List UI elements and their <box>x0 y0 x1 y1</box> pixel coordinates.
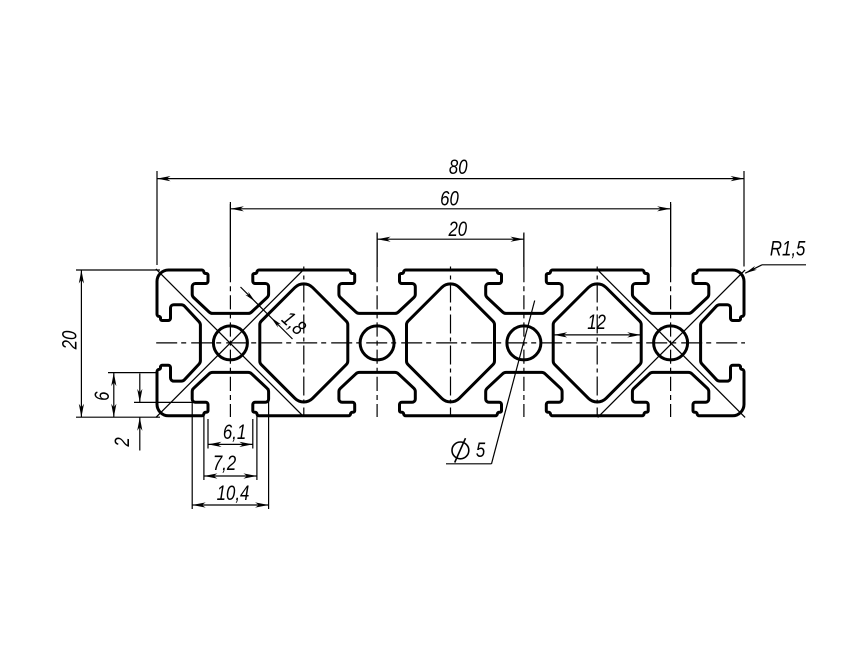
dim 20 top extension lines <box>376 233 378 268</box>
dim 6 <box>113 373 115 418</box>
centerline circle 1 <box>229 204 231 268</box>
svg-text:60: 60 <box>440 188 459 211</box>
dim 7,2 <box>204 475 257 477</box>
dim 2 <box>139 374 141 403</box>
centerline circle 4 <box>670 204 672 268</box>
dim 6,1 extension lines <box>207 419 209 449</box>
bore circle 3 <box>507 326 541 360</box>
diameter symbol <box>452 438 469 462</box>
dim 60 <box>230 208 670 210</box>
svg-text:6: 6 <box>91 391 114 401</box>
dim 20 left <box>80 270 82 417</box>
centerline octagon 2 <box>450 267 452 418</box>
centerline octagon 1 <box>303 267 305 418</box>
bore circle 1 <box>213 326 247 360</box>
leader diameter 5 <box>446 463 492 465</box>
dim 60 extension lines <box>229 202 231 267</box>
cavity octagon 2 <box>406 284 494 402</box>
centerline horizontal <box>156 342 745 344</box>
svg-text:5: 5 <box>476 440 486 463</box>
cavity octagon 1 <box>260 284 348 402</box>
cavity octagon 3 <box>553 284 641 402</box>
svg-text:7,2: 7,2 <box>213 452 237 475</box>
bore circle 2 <box>360 326 394 360</box>
svg-text:80: 80 <box>449 156 468 179</box>
svg-text:6,1: 6,1 <box>223 421 246 444</box>
dim 20 top <box>377 238 524 240</box>
centerline circle 3 <box>523 234 525 269</box>
svg-text:20: 20 <box>59 330 82 350</box>
centerline circle 2 <box>376 234 378 269</box>
leader 1,8 <box>241 287 293 339</box>
bore circle 4 <box>654 326 688 360</box>
dim 20 left extension lines <box>76 269 160 271</box>
dim 10,4 <box>192 504 268 506</box>
dim 6,1 <box>208 443 253 445</box>
dim 7,2 extension lines <box>203 413 205 480</box>
dim 2 extension line <box>134 401 194 403</box>
profile cross-section outline 20x80 <box>157 270 744 416</box>
centerline octagon 3 <box>596 267 598 418</box>
dim 12 <box>554 334 641 336</box>
dim 80 <box>157 178 744 180</box>
svg-text:R1,5: R1,5 <box>770 238 806 261</box>
dim 10,4 extension lines <box>191 388 193 509</box>
leader R1,5 <box>762 264 806 266</box>
diagonal cross right <box>598 270 745 418</box>
dim 80 extension lines <box>156 171 158 265</box>
svg-text:10,4: 10,4 <box>217 482 250 505</box>
svg-text:2: 2 <box>111 437 134 448</box>
diagonal cross left <box>156 269 303 416</box>
dim 6 extension line <box>108 372 158 374</box>
svg-text:20: 20 <box>448 218 468 241</box>
